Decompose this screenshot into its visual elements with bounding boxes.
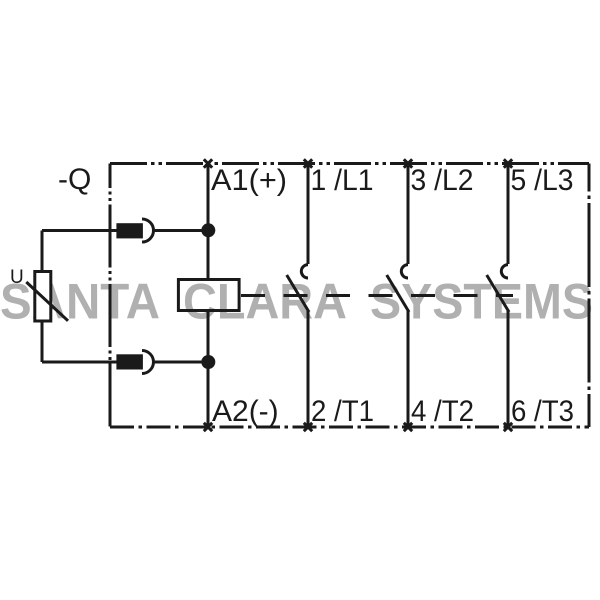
main contact 3-4, moving contact blade [387,275,409,312]
svg-text:3 /L2: 3 /L2 [411,164,474,197]
svg-text:2 /T1: 2 /T1 [311,395,374,428]
junction node on A2 branch [201,355,215,369]
svg-text:4 /T2: 4 /T2 [411,395,474,428]
main contact 5-6, upper segment [507,164,510,265]
enclosure boundary of contactor -Q (dash-dot outline) [110,164,589,428]
main contact 1-2, fixed contact hook [301,265,308,278]
svg-text:5 /L3: 5 /L3 [511,164,574,197]
main contact 1-2, moving contact blade [287,275,309,312]
svg-text:6 /T3: 6 /T3 [511,395,574,428]
terminal A1 [204,159,212,167]
main contact 1-2, lower segment [307,311,310,427]
svg-text:1 /L1: 1 /L1 [311,164,374,197]
main contact 3-4, upper segment [407,164,410,265]
terminal 3 [404,159,412,167]
junction node on A1 branch [201,223,215,237]
terminal X marks [204,159,512,431]
wire: coil pole A1 upper segment [207,164,210,279]
main contact 5-6, lower segment [507,311,510,427]
mechanical linkage (dashed) from coil to contacts [241,294,513,297]
svg-text:A1(+): A1(+) [211,164,287,197]
socket contact of plug connection, upper [142,219,154,242]
wire: lower suppressor branch [154,361,209,364]
wire: upper suppressor branch [154,229,209,232]
terminal 4 [404,423,412,431]
terminal 6 [504,423,512,431]
coil K of contactor [178,280,239,311]
svg-text:A2(-): A2(-) [212,395,279,428]
terminal A2 [204,423,212,431]
terminal 1 [304,159,312,167]
main contact 1-2, upper segment [307,164,310,265]
pin contact of plug connection, upper (filled) [116,223,142,238]
svg-text:U: U [10,267,24,288]
main contact 5-6, moving contact blade [487,275,509,312]
varistor RV (surge suppressor) [35,272,51,322]
socket contact of plug connection, lower [142,351,153,374]
terminal 2 [304,423,312,431]
main contact 3-4, lower segment [407,311,410,427]
terminal 5 [504,159,512,167]
pin contact of plug connection, lower (filled) [116,354,142,369]
main contact 5-6, fixed contact hook [501,265,508,278]
watermark [0,274,593,330]
svg-text:SANTA: SANTA [0,274,160,330]
main contact 3-4, fixed contact hook [401,265,408,278]
svg-text:-Q: -Q [58,163,91,196]
wire: coil pole A2 lower segment [207,312,210,427]
